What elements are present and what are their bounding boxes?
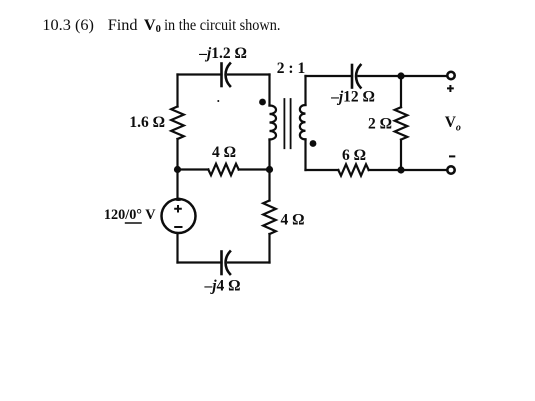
resistor R1 1.6 ohm xyxy=(171,107,184,139)
scan speck xyxy=(217,100,219,102)
node junction top-right xyxy=(397,72,404,79)
wire middle vertical xyxy=(268,75,270,263)
node dot primary polarity xyxy=(259,99,266,106)
svg-text:2 : 1: 2 : 1 xyxy=(277,60,305,77)
voltage source V1 circle xyxy=(162,199,196,233)
label plus terminal xyxy=(447,85,454,92)
transformer T1 core xyxy=(284,99,290,148)
source top dark blob xyxy=(174,198,182,201)
wire secondary vertical xyxy=(304,76,306,170)
svg-text:10.3 (6): 10.3 (6) xyxy=(42,15,94,34)
svg-text:–j12 Ω: –j12 Ω xyxy=(330,88,375,105)
wire top-left horizontal xyxy=(178,73,270,75)
svg-text:4 Ω: 4 Ω xyxy=(212,144,236,161)
wire bottom-right horizontal xyxy=(306,169,447,171)
svg-text:in the circuit shown.: in the circuit shown. xyxy=(164,15,280,34)
wire left vertical xyxy=(176,75,178,263)
svg-text:120/0° V: 120/0° V xyxy=(104,207,156,223)
svg-text:4 Ω: 4 Ω xyxy=(281,212,305,229)
wire middle horizontal 4ohm branch xyxy=(178,168,270,170)
terminal top open circle xyxy=(447,72,454,79)
capacitor C2 -j4 ohm plates xyxy=(220,252,223,275)
terminal bottom open circle xyxy=(447,166,454,173)
node junction bottom-right xyxy=(397,166,404,173)
svg-text:–j1.2 Ω: –j1.2 Ω xyxy=(198,45,247,62)
wire top-right horizontal xyxy=(306,75,447,77)
transformer T1 primary coil xyxy=(270,106,277,140)
svg-text:Find: Find xyxy=(108,15,138,34)
node junction left xyxy=(174,166,181,173)
svg-text:2 Ω: 2 Ω xyxy=(368,116,392,133)
transformer T1 secondary coil xyxy=(300,105,306,139)
node dot secondary polarity xyxy=(310,140,317,147)
svg-text:V0: V0 xyxy=(144,15,161,35)
svg-text:Vo: Vo xyxy=(445,114,461,134)
capacitor C1 -j1.2 ohm plates xyxy=(220,64,223,87)
title text xyxy=(42,15,280,35)
source polarity marks xyxy=(174,205,182,227)
node junction middle xyxy=(266,166,273,173)
resistor R5 2 ohm vertical xyxy=(400,76,402,170)
svg-text:–j4 Ω: –j4 Ω xyxy=(203,278,240,295)
capacitor C3 -j12 ohm plates xyxy=(351,65,354,88)
wire bottom-left horizontal xyxy=(178,261,270,263)
svg-text:1.6 Ω: 1.6 Ω xyxy=(129,114,165,131)
resistor R4 6 ohm horizontal xyxy=(338,164,368,175)
resistor R2 4 ohm horizontal xyxy=(208,164,238,175)
label minus terminal xyxy=(449,155,455,157)
resistor R3 4 ohm vertical xyxy=(263,201,276,235)
svg-text:6 Ω: 6 Ω xyxy=(342,147,366,164)
